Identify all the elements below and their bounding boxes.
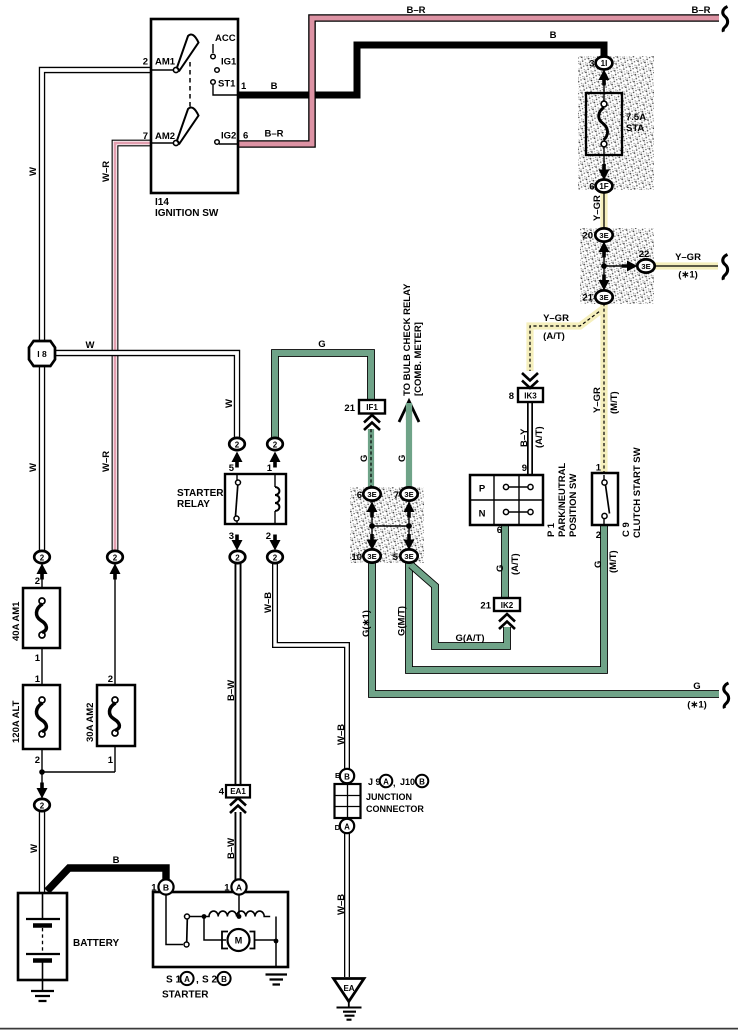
svg-text:B–Y: B–Y (519, 428, 530, 447)
svg-text:2: 2 (235, 441, 240, 450)
svg-text:6: 6 (589, 182, 594, 193)
svg-text:ACC: ACC (215, 33, 236, 44)
svg-text:3E: 3E (599, 293, 608, 302)
svg-text:,: , (196, 975, 199, 986)
svg-text:CLUTCH START SW: CLUTCH START SW (632, 447, 643, 538)
svg-text:I14: I14 (155, 197, 169, 208)
svg-text:IGNITION SW: IGNITION SW (155, 208, 219, 219)
svg-text:I 8: I 8 (37, 349, 47, 359)
svg-text:G: G (693, 681, 700, 692)
svg-text:S 2: S 2 (202, 975, 217, 986)
svg-text:D: D (335, 823, 341, 832)
svg-text:Y–GR: Y–GR (543, 313, 569, 324)
svg-text:S 1: S 1 (166, 975, 181, 986)
svg-text:B: B (344, 773, 350, 782)
svg-text:G: G (318, 339, 325, 350)
svg-text:J10: J10 (400, 777, 415, 787)
svg-text:3E: 3E (367, 552, 376, 561)
svg-text:B: B (221, 975, 227, 984)
svg-text:JUNCTION: JUNCTION (366, 792, 412, 802)
svg-text:2: 2 (273, 554, 278, 563)
svg-text:1: 1 (596, 463, 602, 474)
svg-text:A: A (344, 823, 350, 832)
svg-text:1: 1 (151, 883, 157, 894)
svg-text:Y–GR: Y–GR (675, 252, 701, 263)
svg-text:30A AM2: 30A AM2 (85, 703, 96, 742)
svg-text:1: 1 (108, 755, 114, 766)
svg-text:W–B: W–B (336, 724, 347, 745)
svg-text:A: A (383, 778, 389, 787)
svg-text:G(M/T): G(M/T) (397, 606, 408, 636)
svg-text:P 1: P 1 (546, 522, 557, 537)
svg-text:W–B: W–B (336, 894, 347, 915)
svg-text:STARTER: STARTER (162, 990, 209, 1001)
svg-text:ST1: ST1 (218, 79, 236, 90)
svg-text:8: 8 (509, 391, 514, 402)
svg-text:(∗1): (∗1) (678, 270, 698, 281)
svg-text:B–R: B–R (264, 129, 283, 140)
svg-text:G: G (397, 455, 408, 462)
svg-text:Y–GR: Y–GR (592, 195, 603, 221)
svg-text:(M/T): (M/T) (608, 550, 619, 573)
svg-text:B–R: B–R (691, 5, 710, 16)
svg-text:Y–GR: Y–GR (592, 387, 603, 413)
svg-text:A: A (236, 883, 242, 893)
svg-text:3E: 3E (404, 490, 413, 499)
svg-text:6: 6 (243, 131, 248, 142)
svg-text:B–W: B–W (226, 838, 237, 859)
svg-text:9: 9 (522, 463, 527, 474)
svg-text:2: 2 (266, 531, 271, 542)
svg-text:STA: STA (626, 123, 644, 134)
svg-text:120A ALT: 120A ALT (11, 700, 22, 743)
svg-text:21: 21 (582, 293, 593, 304)
svg-text:3: 3 (589, 59, 594, 70)
svg-text:6: 6 (357, 490, 362, 501)
svg-text:1F: 1F (599, 182, 608, 191)
svg-text:W: W (28, 463, 39, 472)
svg-text:CONNECTOR: CONNECTOR (366, 804, 424, 814)
svg-text:EA: EA (343, 984, 354, 993)
svg-text:M: M (235, 936, 243, 946)
svg-text:1: 1 (35, 674, 41, 685)
svg-text:W: W (29, 844, 40, 853)
svg-text:7: 7 (143, 131, 148, 142)
svg-text:1: 1 (241, 81, 247, 92)
svg-text:W: W (86, 340, 95, 351)
svg-text:22: 22 (639, 249, 650, 260)
svg-text:3E: 3E (641, 262, 650, 271)
svg-text:J 9: J 9 (368, 777, 381, 787)
svg-text:B: B (113, 855, 120, 866)
svg-text:(A/T): (A/T) (543, 331, 565, 342)
svg-text:6: 6 (497, 525, 502, 536)
svg-text:G: G (593, 561, 604, 568)
svg-text:RELAY: RELAY (177, 499, 210, 510)
svg-text:5: 5 (229, 463, 235, 474)
svg-text:W–B: W–B (263, 592, 274, 613)
svg-text:40A AM1: 40A AM1 (11, 601, 22, 641)
svg-text:G(∗1): G(∗1) (361, 610, 372, 637)
svg-text:3E: 3E (404, 552, 413, 561)
svg-text:2: 2 (596, 530, 601, 541)
svg-text:G: G (495, 565, 506, 572)
svg-text:AM2: AM2 (155, 131, 175, 142)
svg-text:BATTERY: BATTERY (73, 938, 119, 949)
svg-text:PARK/NEUTRAL: PARK/NEUTRAL (557, 463, 568, 537)
svg-text:3E: 3E (599, 231, 608, 240)
svg-text:IK3: IK3 (524, 392, 537, 401)
svg-text:2: 2 (113, 554, 118, 563)
svg-text:B: B (271, 81, 278, 92)
svg-text:(A/T): (A/T) (510, 553, 521, 575)
svg-text:A: A (184, 975, 190, 984)
svg-text:21: 21 (480, 601, 491, 612)
svg-text:G: G (359, 455, 370, 462)
svg-text:1: 1 (224, 883, 230, 894)
svg-text:2: 2 (273, 441, 278, 450)
svg-text:7.5A: 7.5A (626, 112, 646, 123)
svg-text:2: 2 (40, 802, 45, 811)
svg-text:W: W (28, 167, 39, 176)
svg-text:[COMB. METER]: [COMB. METER] (413, 322, 424, 396)
svg-text:1: 1 (267, 463, 273, 474)
svg-text:(∗1): (∗1) (687, 700, 707, 711)
svg-text:C 9: C 9 (621, 522, 632, 537)
svg-text:2: 2 (235, 554, 240, 563)
svg-text:POSITION SW: POSITION SW (568, 474, 579, 537)
svg-text:10: 10 (351, 552, 362, 563)
svg-text:B–R: B–R (406, 5, 425, 16)
svg-text:(M/T): (M/T) (609, 391, 620, 414)
svg-text:B: B (419, 778, 425, 787)
svg-text:AM1: AM1 (155, 57, 176, 68)
svg-text:7: 7 (394, 490, 399, 501)
svg-text:2: 2 (40, 554, 45, 563)
svg-text:E: E (335, 771, 340, 780)
svg-text:IG2: IG2 (221, 131, 236, 142)
svg-text:3E: 3E (367, 490, 376, 499)
svg-text:N: N (479, 509, 486, 520)
svg-text:,: , (393, 778, 396, 788)
svg-text:IK2: IK2 (501, 601, 514, 610)
svg-text:STARTER: STARTER (177, 488, 224, 499)
svg-text:B: B (163, 883, 169, 893)
svg-text:1I: 1I (601, 59, 608, 68)
svg-text:W–R: W–R (101, 451, 112, 472)
svg-text:G(A/T): G(A/T) (455, 633, 484, 644)
svg-text:2: 2 (35, 755, 40, 766)
svg-text:W–R: W–R (101, 161, 112, 182)
svg-text:B: B (550, 30, 557, 41)
svg-text:(A/T): (A/T) (534, 426, 545, 448)
svg-text:2: 2 (143, 57, 148, 68)
svg-text:1: 1 (35, 653, 41, 664)
svg-text:IF1: IF1 (366, 403, 378, 412)
svg-text:4: 4 (219, 787, 225, 798)
svg-text:IG1: IG1 (221, 57, 237, 68)
svg-text:W: W (224, 399, 235, 408)
svg-text:21: 21 (344, 403, 355, 414)
svg-text:2: 2 (35, 576, 40, 587)
svg-text:3: 3 (229, 531, 234, 542)
svg-text:20: 20 (582, 231, 593, 242)
svg-text:EA1: EA1 (230, 787, 246, 796)
svg-text:5: 5 (393, 552, 399, 563)
svg-text:P: P (479, 484, 486, 495)
svg-text:B–W: B–W (226, 680, 237, 701)
svg-text:2: 2 (108, 674, 113, 685)
svg-text:TO BULB CHECK RELAY: TO BULB CHECK RELAY (402, 283, 413, 396)
